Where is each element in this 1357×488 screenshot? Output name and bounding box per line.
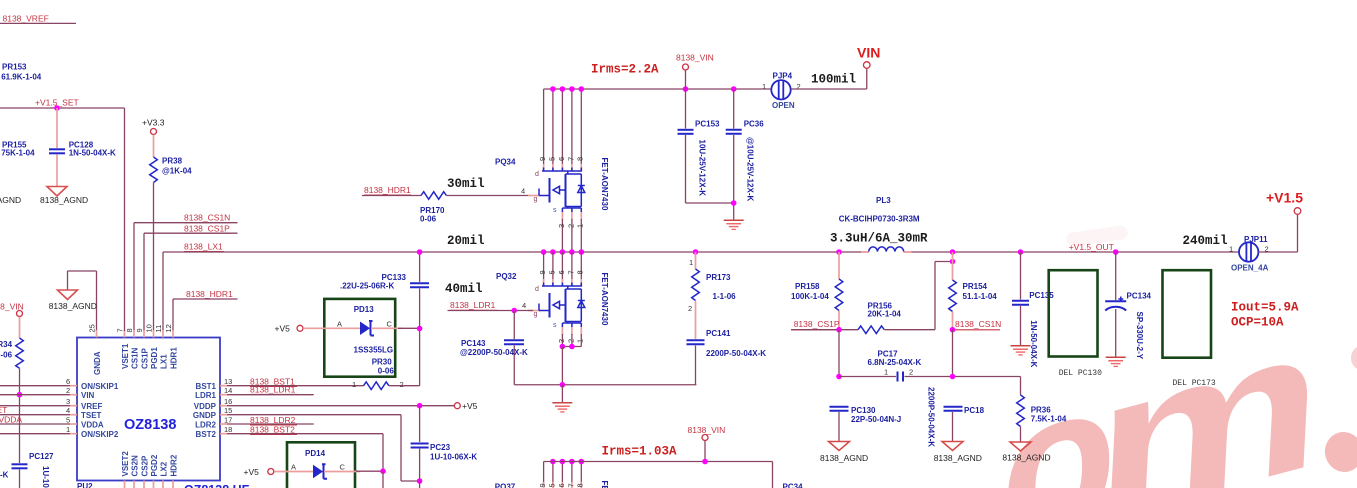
svg-text:25: 25: [88, 324, 97, 332]
svg-text:2: 2: [909, 368, 913, 377]
svg-text:PC36: PC36: [744, 120, 765, 129]
ground (power) under PQ32: [552, 385, 572, 412]
transistor PQ34: [495, 89, 609, 252]
svg-text:OZ8138 HF: OZ8138 HF: [184, 483, 250, 488]
svg-text:LX1: LX1: [160, 354, 169, 369]
svg-text:20K-1-04: 20K-1-04: [868, 310, 902, 319]
svg-text:PC34: PC34: [783, 483, 804, 488]
watermark: [996, 277, 1357, 488]
svg-text:PC133: PC133: [382, 273, 407, 282]
svg-text:11: 11: [154, 325, 163, 333]
resistor PR154: [949, 249, 998, 330]
svg-text:PR154: PR154: [963, 282, 988, 291]
svg-text:3: 3: [557, 339, 566, 343]
svg-text:VIN: VIN: [857, 45, 880, 61]
svg-text:C: C: [340, 463, 346, 472]
svg-text:1: 1: [884, 368, 888, 377]
svg-text:8138_LX1: 8138_LX1: [184, 242, 223, 252]
pin stubs IC bottom: [125, 481, 174, 488]
svg-text:30mil: 30mil: [447, 177, 485, 191]
svg-text:6: 6: [66, 377, 70, 386]
resistor PR156: [858, 259, 955, 334]
resistor PR170: [420, 187, 528, 224]
wire ON/SKIP2 row: [0, 433, 70, 435]
svg-text:16: 16: [224, 397, 232, 406]
node 8138_VIN (left): [0, 302, 24, 339]
svg-text:PU2: PU2: [77, 482, 93, 488]
svg-text:@10U-25V-12X-K: @10U-25V-12X-K: [746, 137, 755, 201]
svg-text:3: 3: [557, 224, 566, 228]
svg-text:PC141: PC141: [706, 329, 731, 338]
wire ON/SKIP1 row: [0, 385, 70, 387]
svg-text:1U-10-06X-K: 1U-10-06X-K: [430, 453, 477, 462]
transistor PQ37 (partial at bottom): [495, 459, 609, 488]
svg-text:10U-25V-12X-K: 10U-25V-12X-K: [698, 140, 707, 197]
resistor PR153 (symbol off-canvas): [1, 63, 42, 82]
svg-text:VSET1: VSET1: [121, 343, 130, 369]
svg-text:PD14: PD14: [305, 449, 326, 458]
svg-text:20mil: 20mil: [447, 234, 485, 248]
node +V1.5_SET: [0, 98, 125, 111]
svg-text:1: 1: [1229, 245, 1233, 254]
wire TSET row: [0, 414, 70, 416]
capacitor PC128: [49, 108, 116, 186]
svg-text:1: 1: [352, 380, 356, 389]
svg-text:5: 5: [547, 270, 556, 274]
capacitor PC17: [836, 330, 1020, 448]
svg-text:PJP4: PJP4: [773, 72, 793, 81]
svg-text:2200P-50-04X-K: 2200P-50-04X-K: [927, 387, 936, 447]
svg-text:40mil: 40mil: [445, 282, 483, 296]
svg-text:8138_CS1P: 8138_CS1P: [184, 223, 230, 233]
svg-text:8138_AGND: 8138_AGND: [934, 453, 982, 463]
ground 8138_AGND (PC130): [820, 442, 868, 464]
svg-text:VREF: VREF: [81, 402, 102, 411]
svg-text:GNDA: GNDA: [93, 351, 102, 375]
svg-text:PC23: PC23: [430, 443, 451, 452]
svg-text:7: 7: [566, 270, 575, 274]
svg-text:Irms=1.03A: Irms=1.03A: [602, 445, 678, 459]
capacitor PC141: [687, 329, 767, 385]
svg-text:9: 9: [538, 270, 547, 274]
svg-text:SP-330U-2-Y: SP-330U-2-Y: [1135, 312, 1144, 360]
svg-text:2: 2: [400, 380, 404, 389]
svg-text:FET-AON7430: FET-AON7430: [600, 273, 609, 326]
svg-text:OPEN_4A: OPEN_4A: [1231, 264, 1269, 273]
capacitor PC130: [830, 406, 902, 442]
node 8138_LDR1 (at PQ32 gate): [448, 300, 534, 313]
svg-text:FET-AON7430: FET-AON7430: [600, 158, 609, 211]
wire PGND bus under PQ32: [514, 382, 696, 388]
svg-text:0-06: 0-06: [420, 215, 437, 224]
capacitor PC36: [726, 89, 765, 220]
wire: [0, 107, 125, 109]
svg-text:51.1-1-04: 51.1-1-04: [963, 292, 998, 301]
svg-text:CS1N: CS1N: [131, 347, 140, 369]
diode PD14: [244, 442, 386, 488]
svg-text:PGD1: PGD1: [150, 347, 159, 369]
svg-text:@2200P-50-04X-K: @2200P-50-04X-K: [460, 348, 528, 357]
svg-text:1: 1: [762, 82, 766, 91]
watermark smudge: [1065, 225, 1128, 247]
node 8138_HDR1 (stub at IC): [173, 289, 238, 331]
svg-text:1SS355LG: 1SS355LG: [354, 346, 394, 355]
svg-text:1: 1: [576, 339, 585, 343]
svg-text:6.8N-25-04X-K: 6.8N-25-04X-K: [868, 358, 922, 367]
node 8138_CS1N: [950, 319, 1002, 376]
diode PD13: [275, 299, 423, 377]
svg-text:4: 4: [66, 406, 70, 415]
del box DEL PC173: [1163, 270, 1216, 388]
svg-text:PC135: PC135: [1029, 291, 1054, 300]
ground 8138_AGND (pin 25 GNDA): [49, 271, 97, 331]
svg-text:5: 5: [66, 416, 70, 425]
ground (power) under PC134: [1106, 357, 1126, 366]
svg-text:PR153: PR153: [2, 63, 27, 72]
svg-text:1: 1: [66, 425, 70, 434]
svg-text:GNDP: GNDP: [193, 411, 217, 420]
svg-text:22P-50-04N-J: 22P-50-04N-J: [851, 415, 901, 424]
svg-text:240mil: 240mil: [1183, 234, 1228, 248]
svg-text:0-06: 0-06: [0, 351, 13, 360]
svg-text:+V3.3: +V3.3: [142, 118, 165, 128]
svg-text:7: 7: [566, 483, 575, 487]
svg-text:17: 17: [224, 416, 232, 425]
svg-text:.22U-25-06R-K: .22U-25-06R-K: [340, 282, 394, 291]
capacitor PC18: [944, 406, 985, 442]
svg-text:PR173: PR173: [706, 273, 731, 282]
svg-text:5: 5: [547, 157, 556, 161]
svg-text:1N-50-04X-K: 1N-50-04X-K: [1029, 320, 1038, 367]
pin stubs IC left and right: [70, 386, 227, 434]
svg-text:ON/SKIP1: ON/SKIP1: [81, 382, 119, 391]
svg-text:12: 12: [164, 324, 173, 332]
svg-text:VSET2: VSET2: [121, 451, 130, 477]
node 8138_LX1 / main LX rail: [163, 242, 1239, 332]
pin numbers IC: [66, 324, 232, 434]
jumper PJP4: [762, 68, 867, 110]
svg-text:1: 1: [576, 224, 585, 228]
svg-text:C: C: [387, 320, 393, 329]
svg-text:8138_AGND: 8138_AGND: [820, 453, 868, 463]
svg-text:CS2N: CS2N: [131, 455, 140, 477]
jumper PJP11: [1229, 215, 1298, 273]
wire VREF row: [0, 405, 70, 407]
svg-text:CS1P: CS1P: [141, 347, 150, 369]
capacitor PC135: [1012, 252, 1054, 368]
svg-text:VDDP: VDDP: [194, 402, 217, 411]
svg-text:8: 8: [576, 157, 585, 161]
svg-text:HDR2: HDR2: [170, 454, 179, 476]
node 8138_CS1P: [144, 223, 238, 331]
resistor PR34: [0, 338, 23, 463]
svg-text:OCP=10A: OCP=10A: [1231, 316, 1284, 330]
wire GNDP: [227, 415, 422, 488]
svg-text:@1K-04: @1K-04: [162, 167, 192, 176]
svg-text:A: A: [291, 463, 296, 472]
svg-text:PR36: PR36: [1031, 406, 1052, 415]
svg-text:2: 2: [688, 304, 692, 313]
wire VIN rail: [544, 86, 771, 92]
svg-text:PQ37: PQ37: [495, 483, 516, 488]
node 8138_VREF: [0, 14, 76, 24]
svg-text:6: 6: [557, 157, 566, 161]
svg-text:PC134: PC134: [1127, 292, 1152, 301]
svg-text:-K: -K: [0, 471, 9, 480]
svg-text:1-1-06: 1-1-06: [713, 292, 737, 301]
svg-text:8138_HDR1: 8138_HDR1: [186, 289, 233, 299]
svg-text:3.3uH/6A_30mR: 3.3uH/6A_30mR: [830, 232, 928, 246]
svg-text:2: 2: [566, 224, 575, 228]
svg-text:PC18: PC18: [964, 406, 985, 415]
svg-text:LX2: LX2: [160, 461, 169, 476]
capacitor PC134 (electrolytic): [1105, 252, 1151, 360]
node 8138_CS1P: [791, 319, 858, 332]
svg-text:+V5: +V5: [275, 324, 291, 334]
svg-text:PGD2: PGD2: [150, 454, 159, 476]
resistor PR38: [150, 157, 192, 332]
svg-text:BST2: BST2: [196, 430, 217, 439]
node +V3.3: [142, 118, 165, 158]
svg-text:LDR2: LDR2: [195, 420, 216, 429]
svg-text:8: 8: [125, 328, 134, 332]
ground 8138_AGND (PR36): [1002, 442, 1050, 463]
svg-text:15: 15: [224, 406, 232, 415]
wire VDDA row: [0, 423, 70, 425]
node 8138_VIN (bottom): [688, 425, 726, 462]
svg-text:LDR1: LDR1: [195, 391, 216, 400]
svg-text:2: 2: [66, 386, 70, 395]
svg-text:8: 8: [576, 483, 585, 487]
junction dots LX rail: [541, 249, 584, 255]
pin stubs IC top: [97, 108, 174, 338]
wire VDDP to +V5: [227, 401, 478, 411]
svg-text:DEL PC130: DEL PC130: [1059, 369, 1102, 378]
node +V1.5_OUT: [1018, 242, 1119, 255]
svg-text:2: 2: [566, 339, 575, 343]
svg-text:HDR1: HDR1: [170, 347, 179, 369]
svg-text:8138_CS1N: 8138_CS1N: [955, 319, 1001, 329]
ground 8138_AGND (PC128): [0, 187, 88, 205]
svg-text:8138_LDR1: 8138_LDR1: [250, 385, 296, 395]
svg-text:PC143: PC143: [461, 339, 486, 348]
svg-text:TSET: TSET: [81, 411, 102, 420]
svg-text:8138_CS1P: 8138_CS1P: [794, 319, 840, 329]
svg-text:DEL PC173: DEL PC173: [1173, 379, 1216, 388]
ground (power) under PC135: [1011, 346, 1031, 355]
svg-text:8138_CS1N: 8138_CS1N: [184, 213, 230, 223]
svg-text:75K-1-04: 75K-1-04: [1, 149, 35, 158]
svg-text:1: 1: [689, 258, 693, 267]
svg-text:PR158: PR158: [795, 282, 820, 291]
svg-text:1U-10-06X-K: 1U-10-06X-K: [41, 466, 50, 488]
svg-text:8138_VIN: 8138_VIN: [676, 53, 714, 63]
svg-text:PC130: PC130: [851, 406, 876, 415]
svg-text:OPEN: OPEN: [772, 101, 795, 110]
wire VIN2 rail (bottom): [544, 459, 773, 488]
svg-text:A: A: [337, 320, 342, 329]
svg-text:18: 18: [224, 425, 232, 434]
resistor PR173: [688, 249, 736, 339]
svg-text:8138_AGND: 8138_AGND: [1002, 453, 1050, 463]
svg-text:8138_VIN: 8138_VIN: [688, 425, 726, 435]
node 8138_HDR1 (at PR170): [362, 185, 421, 196]
capacitor PC153: [678, 89, 734, 203]
capacitor PC127: [0, 452, 54, 488]
svg-text:7.5K-1-04: 7.5K-1-04: [1031, 415, 1067, 424]
inductor PL3: [830, 196, 928, 252]
svg-text:PC17: PC17: [878, 349, 899, 358]
del box DEL PC130: [1049, 270, 1102, 378]
svg-text:8138_AGND: 8138_AGND: [40, 195, 88, 205]
capacitor PC143: [460, 311, 528, 385]
svg-text:61.9K-1-04: 61.9K-1-04: [1, 73, 42, 82]
svg-text:PL3: PL3: [876, 196, 891, 205]
svg-text:4: 4: [521, 187, 525, 196]
svg-text:PR38: PR38: [162, 157, 183, 166]
svg-text:8138_AGND: 8138_AGND: [0, 195, 21, 205]
svg-text:4: 4: [522, 301, 526, 310]
ground (power) under PC36: [724, 220, 744, 229]
svg-text:7: 7: [116, 328, 125, 332]
svg-text:9: 9: [135, 328, 144, 332]
svg-text:PR30: PR30: [372, 358, 393, 367]
svg-text:9: 9: [538, 483, 547, 487]
capacitor PC133: [340, 249, 429, 328]
svg-text:VDDA: VDDA: [81, 420, 104, 429]
svg-text:PR34: PR34: [0, 340, 13, 349]
svg-text:+V1.5: +V1.5: [1266, 190, 1303, 206]
svg-text:+V5: +V5: [462, 401, 478, 411]
node 8138_LDR2: [227, 415, 314, 425]
node 8138_VIN (top): [676, 53, 714, 90]
ground 8138_AGND (PC18): [934, 442, 982, 464]
svg-text:BST1: BST1: [196, 382, 217, 391]
svg-text:CS2P: CS2P: [141, 455, 150, 477]
node 8138_BST1: [227, 376, 364, 386]
svg-text:1N-50-04X-K: 1N-50-04X-K: [69, 149, 116, 158]
wire to PGD1: [153, 183, 155, 332]
svg-text:FET-AON7430: FET-AON7430: [600, 481, 609, 488]
svg-text:8138_HDR1: 8138_HDR1: [364, 185, 411, 195]
svg-text:8: 8: [576, 270, 585, 274]
IC PU2 OZ8138 controller: [77, 338, 250, 488]
svg-text:VIN: VIN: [81, 391, 95, 400]
node 8138_LDR1 (at IC): [227, 385, 314, 395]
resistor PR158: [791, 249, 843, 330]
svg-text:6: 6: [557, 270, 566, 274]
node 8138_BST2: [227, 425, 383, 472]
svg-text:13: 13: [224, 377, 232, 386]
svg-text:ON/SKIP2: ON/SKIP2: [81, 430, 119, 439]
svg-text:8138_BST2: 8138_BST2: [250, 425, 295, 435]
svg-text:PC127: PC127: [29, 452, 54, 461]
svg-text:100K-1-04: 100K-1-04: [791, 292, 829, 301]
resistor PR30: [352, 329, 420, 390]
svg-text:CK-BCIHP0730-3R3M: CK-BCIHP0730-3R3M: [839, 215, 920, 224]
svg-text:OZ8138: OZ8138: [124, 417, 176, 433]
svg-text:5: 5: [547, 483, 556, 487]
capacitor PC23: [411, 406, 478, 481]
transistor PQ32: [496, 252, 609, 385]
svg-text:PQ32: PQ32: [496, 272, 517, 281]
svg-text:Irms=2.2A: Irms=2.2A: [591, 63, 659, 77]
svg-text:PQ34: PQ34: [495, 158, 516, 167]
svg-text:+V5: +V5: [244, 467, 260, 477]
resistor PR36: [1017, 377, 1067, 443]
node +V1.5: [1266, 190, 1303, 215]
svg-text:8138_AGND: 8138_AGND: [49, 301, 97, 311]
svg-text:8138_VREF: 8138_VREF: [3, 14, 49, 24]
svg-text:Iout=5.9A: Iout=5.9A: [1231, 301, 1299, 315]
svg-text:8138_LDR1: 8138_LDR1: [450, 300, 496, 310]
svg-text:PD13: PD13: [354, 305, 375, 314]
svg-text:+V1.5_OUT: +V1.5_OUT: [1069, 242, 1114, 252]
svg-text:3: 3: [66, 397, 70, 406]
svg-text:100mil: 100mil: [811, 73, 856, 87]
svg-text:+VDDA: +VDDA: [0, 414, 22, 424]
svg-text:PC153: PC153: [695, 120, 720, 129]
node 8138_CS1N: [134, 213, 238, 331]
svg-text:6: 6: [557, 483, 566, 487]
wire VIN row: [0, 394, 70, 396]
svg-text:14: 14: [224, 386, 232, 395]
svg-text:10: 10: [145, 324, 154, 332]
svg-text:2200P-50-04X-K: 2200P-50-04X-K: [706, 349, 766, 358]
svg-text:0-06: 0-06: [378, 367, 395, 376]
node VIN: [857, 45, 880, 69]
resistor PR155 (symbol off-canvas): [1, 141, 35, 158]
svg-text:9: 9: [538, 157, 547, 161]
svg-text:7: 7: [566, 157, 575, 161]
